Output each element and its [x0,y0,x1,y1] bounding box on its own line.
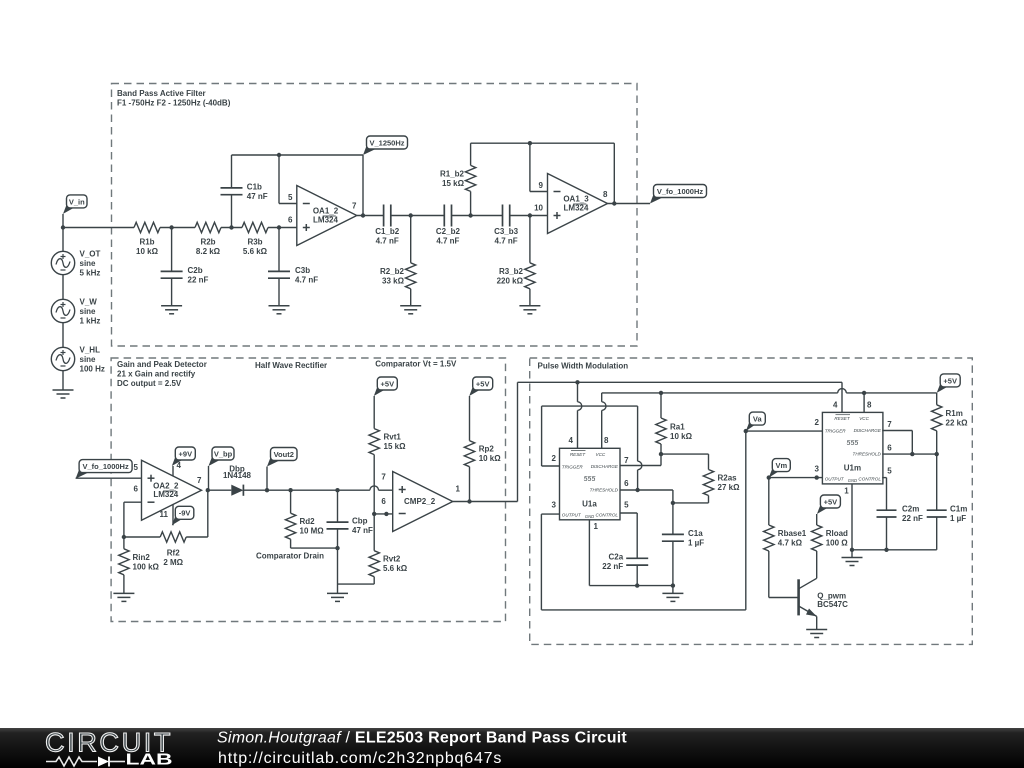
svg-text:R1m: R1m [946,409,963,418]
svg-text:47 nF: 47 nF [247,192,268,201]
svg-text:R2b: R2b [200,238,215,247]
svg-text:3: 3 [552,500,557,509]
svg-text:Vout2: Vout2 [274,450,294,459]
svg-text:1 µF: 1 µF [688,538,704,547]
svg-text:Va: Va [753,415,763,424]
svg-text:sine: sine [80,307,97,316]
svg-text:LM324: LM324 [564,203,589,212]
svg-text:TRIGGER: TRIGGER [825,428,847,433]
svg-text:GND: GND [848,478,857,483]
svg-text:4.7 nF: 4.7 nF [376,237,399,246]
svg-text:8.2 kΩ: 8.2 kΩ [196,247,221,256]
svg-text:4.7 nF: 4.7 nF [436,237,459,246]
svg-text:10 kΩ: 10 kΩ [479,454,502,463]
svg-text:220 kΩ: 220 kΩ [497,276,524,285]
svg-text:F1 -750Hz F2 - 1250Hz (-40dB): F1 -750Hz F2 - 1250Hz (-40dB) [117,99,231,108]
svg-text:2 MΩ: 2 MΩ [163,558,183,567]
svg-text:1 µF: 1 µF [950,514,966,523]
svg-text:C2a: C2a [609,553,624,562]
svg-text:VCC: VCC [596,452,606,457]
svg-text:33 kΩ: 33 kΩ [382,276,405,285]
svg-text:4: 4 [833,400,838,409]
svg-text:VCC: VCC [859,416,869,421]
svg-text:100 Hz: 100 Hz [80,365,105,374]
svg-text:1: 1 [594,522,599,531]
svg-text:Rf2: Rf2 [167,549,180,558]
svg-text:27 kΩ: 27 kΩ [718,483,741,492]
svg-text:sine: sine [80,355,97,364]
svg-text:1: 1 [456,485,461,494]
svg-text:http://circuitlab.com/c2h32npb: http://circuitlab.com/c2h32npbq647s [218,750,502,767]
svg-text:+5V: +5V [943,376,957,385]
svg-text:6: 6 [134,485,139,494]
svg-text:-9V: -9V [179,509,191,518]
svg-text:U1a: U1a [582,499,597,508]
svg-text:V_HL: V_HL [80,346,101,355]
svg-text:DISCHARGE: DISCHARGE [591,464,619,469]
svg-text:Rp2: Rp2 [479,445,495,454]
svg-text:C3_b3: C3_b3 [494,227,519,236]
svg-text:DISCHARGE: DISCHARGE [854,428,882,433]
svg-text:C1m: C1m [950,505,967,514]
svg-text:OUTPUT: OUTPUT [562,513,582,518]
svg-text:4: 4 [177,461,182,470]
svg-text:+5V: +5V [824,497,838,506]
svg-text:OUTPUT: OUTPUT [825,477,845,482]
svg-text:CMP2_2: CMP2_2 [404,497,436,506]
svg-text:R2_b2: R2_b2 [380,267,405,276]
svg-text:CONTROL: CONTROL [596,513,619,518]
svg-text:Simon.Houtgraaf / ELE2503 Repo: Simon.Houtgraaf / ELE2503 Report Band Pa… [217,730,627,747]
svg-text:C1a: C1a [688,529,703,538]
svg-text:10 kΩ: 10 kΩ [670,432,693,441]
svg-text:sine: sine [80,259,97,268]
svg-text:8: 8 [604,436,609,445]
svg-text:6: 6 [887,443,892,452]
svg-text:V_bp: V_bp [214,449,233,458]
svg-text:5: 5 [887,467,892,476]
svg-text:RESET: RESET [834,416,851,421]
svg-text:Comparator Vt = 1.5V: Comparator Vt = 1.5V [375,360,457,369]
svg-text:Q_pwm: Q_pwm [817,591,846,600]
svg-text:C2b: C2b [188,266,203,275]
svg-text:C1_b2: C1_b2 [375,227,400,236]
svg-text:V_1250Hz: V_1250Hz [369,138,404,147]
svg-text:Ra1: Ra1 [670,423,685,432]
svg-text:Band Pass Active Filter: Band Pass Active Filter [117,89,206,98]
svg-text:Comparator Drain: Comparator Drain [256,552,324,561]
svg-text:C2_b2: C2_b2 [436,227,461,236]
svg-text:Cbp: Cbp [352,517,368,526]
svg-text:BC547C: BC547C [817,600,848,609]
svg-text:V_W: V_W [80,298,98,307]
svg-text:R3b: R3b [247,238,262,247]
svg-text:THRESHOLD: THRESHOLD [590,487,619,492]
svg-text:11: 11 [160,510,169,519]
svg-text:555: 555 [847,440,859,447]
svg-text:1N4148: 1N4148 [223,471,252,480]
svg-text:6: 6 [624,479,629,488]
svg-text:LM324: LM324 [313,215,338,224]
svg-text:C1b: C1b [247,183,262,192]
svg-text:R2as: R2as [718,474,738,483]
svg-text:C2m: C2m [902,505,919,514]
svg-text:U1m: U1m [844,463,861,472]
svg-text:7: 7 [381,472,386,481]
svg-text:10 MΩ: 10 MΩ [300,527,325,536]
svg-text:1 kHz: 1 kHz [80,317,101,326]
svg-text:7: 7 [352,202,357,211]
svg-text:OA2_2: OA2_2 [153,481,179,490]
svg-text:GND: GND [585,514,594,519]
svg-text:22 nF: 22 nF [188,275,209,284]
svg-text:10: 10 [534,203,543,212]
svg-text:100 Ω: 100 Ω [826,539,849,548]
svg-text:V_fo_1000Hz: V_fo_1000Hz [657,187,704,196]
svg-text:R1b: R1b [139,238,154,247]
svg-text:+5V: +5V [381,379,395,388]
svg-text:6: 6 [381,497,386,506]
svg-text:22 kΩ: 22 kΩ [946,418,969,427]
svg-text:Rvt2: Rvt2 [383,555,401,564]
svg-text:TRIGGER: TRIGGER [562,464,584,469]
svg-text:7: 7 [197,476,202,485]
svg-text:Pulse Width Modulation: Pulse Width Modulation [538,362,629,371]
svg-text:R1_b2: R1_b2 [440,169,465,178]
svg-text:5 kHz: 5 kHz [80,269,101,278]
svg-text:Rload: Rload [826,529,848,538]
svg-text:4.7 kΩ: 4.7 kΩ [778,539,803,548]
svg-text:4: 4 [569,436,574,445]
svg-text:2: 2 [552,454,557,463]
svg-text:100 kΩ: 100 kΩ [133,563,160,572]
svg-text:8: 8 [603,190,608,199]
svg-text:5.6 kΩ: 5.6 kΩ [383,564,408,573]
svg-text:Half Wave Rectifier: Half Wave Rectifier [255,361,327,370]
svg-text:10 kΩ: 10 kΩ [136,247,159,256]
svg-text:555: 555 [584,476,596,483]
svg-text:V_OT: V_OT [80,250,101,259]
svg-text:+5V: +5V [476,379,490,388]
svg-text:OA1_2: OA1_2 [313,207,339,216]
svg-text:47 nF: 47 nF [352,526,373,535]
svg-text:CONTROL: CONTROL [858,477,881,482]
svg-text:2: 2 [814,418,819,427]
svg-text:Rd2: Rd2 [300,517,316,526]
svg-text:5.6 kΩ: 5.6 kΩ [243,247,268,256]
svg-text:9: 9 [539,181,544,190]
svg-text:15 kΩ: 15 kΩ [384,442,407,451]
svg-text:THRESHOLD: THRESHOLD [853,451,882,456]
svg-text:5: 5 [624,500,629,509]
svg-text:Rvt1: Rvt1 [384,433,402,442]
svg-text:22 nF: 22 nF [602,562,623,571]
svg-text:Gain and Peak Detector: Gain and Peak Detector [117,360,207,369]
svg-text:15 kΩ: 15 kΩ [442,179,465,188]
svg-text:8: 8 [867,400,872,409]
svg-text:RESET: RESET [570,452,587,457]
svg-text:1: 1 [844,487,849,496]
svg-text:C3b: C3b [295,266,310,275]
svg-text:R3_b2: R3_b2 [499,267,524,276]
svg-text:LAB: LAB [126,752,173,768]
svg-text:5: 5 [134,463,139,472]
svg-text:V_in: V_in [69,197,85,206]
svg-text:6: 6 [288,215,293,224]
svg-text:22 nF: 22 nF [902,514,923,523]
svg-text:OA1_3: OA1_3 [563,195,589,204]
svg-text:Vm: Vm [775,461,787,470]
svg-text:LM324: LM324 [153,490,178,499]
svg-text:7: 7 [624,456,629,465]
svg-text:+9V: +9V [179,449,193,458]
svg-text:3: 3 [814,464,819,473]
svg-text:V_fo_1000Hz: V_fo_1000Hz [82,462,129,471]
svg-text:4.7 nF: 4.7 nF [495,237,518,246]
svg-text:21 x Gain and rectify: 21 x Gain and rectify [117,370,196,379]
svg-text:DC output = 2.5V: DC output = 2.5V [117,379,182,388]
svg-text:5: 5 [288,193,293,202]
svg-text:4.7 nF: 4.7 nF [295,275,318,284]
svg-text:Rin2: Rin2 [133,553,151,562]
svg-text:Rbase1: Rbase1 [778,529,807,538]
svg-text:7: 7 [887,420,892,429]
